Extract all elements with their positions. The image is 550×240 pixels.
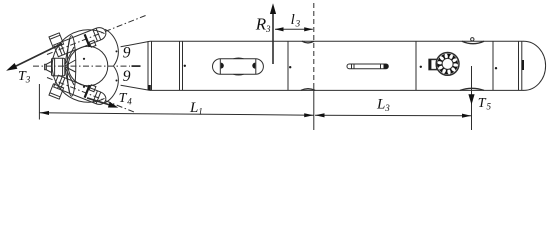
hull fitting bottom x308	[301, 89, 315, 91]
bulkhead line x493	[492, 41, 494, 90]
L1 extension line	[38, 84, 40, 120]
slot rail	[347, 64, 388, 69]
hull fitting top x310	[302, 41, 314, 43]
upper thruster axis dash-dot	[47, 15, 146, 54]
svg-text:T: T	[478, 96, 487, 111]
bulkhead pair 1 black mark	[148, 85, 151, 90]
bulkhead pair 3	[518, 41, 520, 90]
svg-text:9: 9	[123, 44, 131, 61]
propeller blades	[65, 38, 76, 94]
stern black tick	[522, 60, 524, 70]
pod small dots	[83, 58, 85, 60]
handle bottom bump	[234, 73, 244, 76]
L3 dimension line	[315, 114, 472, 116]
hull fitting knob x473	[471, 38, 474, 41]
svg-text:R: R	[255, 15, 267, 34]
svg-text:9: 9	[123, 68, 131, 85]
node dot near x493	[495, 67, 497, 69]
propeller ellipse	[67, 36, 76, 96]
hull bow taper top	[121, 41, 150, 47]
svg-text:5: 5	[487, 102, 492, 112]
L1 dimension line	[39, 113, 313, 115]
bearing center	[442, 58, 453, 69]
handle stadium	[213, 59, 264, 75]
T4 force arrow	[87, 98, 110, 105]
hub drum	[52, 58, 65, 76]
bulkhead line x288	[287, 41, 289, 90]
pod cusp arc upper	[105, 29, 118, 66]
bearing left box dark bar	[429, 59, 432, 69]
bulkhead pair 2	[179, 41, 181, 90]
upper thruster mount plate	[49, 33, 64, 48]
svg-text:1: 1	[198, 107, 203, 117]
hull bow taper bottom	[121, 85, 150, 90]
handle top bump	[234, 57, 244, 60]
hub spinner	[46, 62, 51, 73]
pod centerline dash-dot	[33, 65, 130, 67]
bulkhead line x416	[415, 41, 417, 90]
handle wedge left	[221, 63, 224, 69]
svg-text:3: 3	[265, 24, 271, 34]
handle chord left	[219, 59, 221, 75]
svg-text:L: L	[376, 97, 385, 113]
bearing outer circle	[436, 53, 459, 76]
hull fitting top x473	[462, 41, 484, 44]
bearing black annulus	[440, 56, 456, 72]
hull bottom edge	[150, 89, 524, 91]
section dashed line	[313, 3, 315, 88]
lower thruster axis dash-dot	[47, 78, 135, 113]
T5 force arrow	[471, 66, 473, 130]
bearing balls	[437, 53, 458, 74]
pod ring circle	[52, 30, 104, 102]
handle chord right	[255, 59, 257, 75]
node dot near pair 2	[184, 65, 186, 67]
T3 force arrow	[13, 44, 62, 68]
slot rail line 3	[380, 64, 382, 69]
upper thruster cylinder	[54, 25, 109, 59]
svg-text:3: 3	[295, 19, 301, 29]
hull top edge	[150, 40, 524, 42]
svg-text:3: 3	[384, 103, 390, 113]
svg-text:l: l	[291, 12, 295, 28]
R3 force arrow	[272, 12, 274, 64]
slot rail black cap	[384, 64, 389, 69]
svg-text:L: L	[189, 100, 198, 116]
svg-text:4: 4	[127, 97, 132, 107]
slot rail line 2	[353, 64, 355, 69]
pod inner ring circle	[68, 46, 108, 86]
svg-text:3: 3	[25, 74, 31, 84]
bulkhead pair 1	[147, 41, 149, 90]
slot rail line 1	[351, 64, 353, 69]
pod cusp arc lower	[105, 66, 118, 103]
node dot near x288	[289, 66, 291, 68]
svg-text:T: T	[119, 91, 128, 106]
lower thruster cylinder	[54, 72, 109, 106]
hull stern dome	[524, 41, 546, 90]
bearing left box	[429, 59, 437, 69]
l3 dimension arrow	[275, 28, 313, 30]
hull fitting bottom x472	[460, 88, 484, 90]
lower thruster mount plate	[49, 84, 64, 99]
handle wedge right	[252, 63, 255, 69]
node dot near x416	[420, 66, 422, 68]
